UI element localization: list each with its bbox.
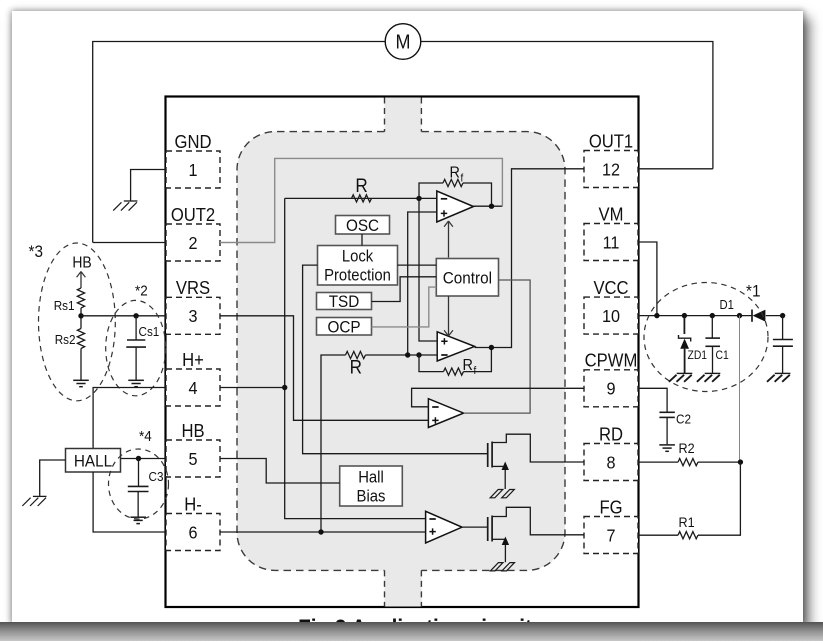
op-amp U3 (second amp) — [437, 332, 474, 361]
dashed ellipse *4 — [109, 449, 169, 519]
wire HALL bottom to H- pin6 — [93, 472, 166, 532]
node dot rail ZD1 — [682, 313, 687, 318]
dashed ellipse *1 — [644, 283, 768, 392]
wire CPWM pin9 to U4 minus — [412, 388, 584, 407]
caption Fig.3 Application circuit — [298, 614, 532, 640]
svg-text:*4: *4 — [139, 428, 152, 445]
internal shaded region fill — [237, 98, 565, 607]
svg-text:f: f — [461, 173, 464, 185]
motor M — [385, 24, 421, 60]
OCP block — [317, 318, 372, 337]
svg-text:8: 8 — [606, 453, 615, 473]
svg-text:M: M — [396, 31, 411, 53]
wire U5 output to Q2 gate — [462, 526, 488, 528]
Control block — [436, 259, 498, 297]
pin 10 VCC — [584, 277, 638, 334]
svg-text:Control: Control — [443, 269, 492, 288]
node dot rail C1 — [710, 313, 715, 318]
svg-text:11: 11 — [603, 233, 620, 253]
dashed ellipse *3 — [39, 243, 116, 401]
zener ZD1 — [679, 316, 708, 373]
node dot rail VM — [654, 313, 659, 318]
pin 11 VM — [584, 203, 638, 260]
svg-text:12: 12 — [602, 160, 620, 180]
svg-text:TSD: TSD — [329, 292, 360, 311]
node dot R2 R1 junction — [738, 459, 743, 464]
svg-text:C2: C2 — [676, 412, 691, 427]
node dot U3 minus b — [416, 352, 421, 357]
svg-text:VCC: VCC — [593, 277, 628, 298]
ground Rs2 — [73, 380, 89, 386]
transistor Q2 (FG driver) — [488, 507, 584, 562]
svg-text:VM: VM — [599, 203, 624, 224]
capacitor Cs1 — [126, 316, 159, 380]
svg-text:RD: RD — [599, 423, 623, 444]
svg-text:*1: *1 — [746, 282, 760, 301]
wire motor loop left — [93, 42, 386, 243]
IC body outline U1 package — [166, 97, 639, 608]
ground C3 — [130, 517, 146, 523]
svg-text:H-: H- — [184, 493, 202, 514]
svg-text:Hall: Hall — [358, 469, 384, 487]
svg-text:HB: HB — [181, 420, 204, 441]
svg-text:R2: R2 — [679, 440, 695, 456]
node dot Rs junction — [78, 313, 83, 318]
svg-text:Rs2: Rs2 — [55, 332, 76, 347]
wire OUT2 gray route pin2 to U2 output — [220, 158, 502, 242]
pin 2 OUT2 — [166, 204, 220, 261]
resistor R (second) — [346, 351, 366, 377]
wire H- rail up to R (second) — [321, 355, 346, 532]
svg-text:R: R — [450, 164, 460, 182]
arrow to HB — [77, 272, 86, 289]
dashed ellipse *2 — [106, 300, 166, 395]
svg-text:R1: R1 — [679, 514, 695, 530]
wire H+ pin4 to rail — [220, 387, 285, 389]
wire H- pin6 to U5 plus — [220, 531, 426, 533]
wire VRS external — [81, 315, 166, 317]
wire U2 output node — [474, 205, 503, 207]
resistor Rs1 — [54, 288, 85, 313]
pin 6 H- — [166, 493, 220, 550]
feedback resistor Rf (top) — [419, 164, 492, 206]
wire HALL to HB pin5 — [121, 458, 167, 460]
wire TSD to Control — [372, 277, 437, 302]
svg-text:*3: *3 — [29, 242, 43, 261]
wire Lock Protection left to MOSFET Q1 gate — [303, 265, 488, 454]
pin 3 VRS — [166, 277, 220, 334]
bottom shadow band — [0, 622, 823, 641]
svg-text:6: 6 — [188, 523, 197, 543]
internal region dashed border — [237, 98, 565, 607]
transistor Q1 (RD driver) — [488, 434, 584, 489]
ground Cs1 — [128, 380, 144, 386]
wire OCP to Control — [372, 287, 437, 327]
node dot H+ junction — [282, 385, 287, 390]
svg-text:3: 3 — [188, 306, 197, 326]
svg-text:HALL: HALL — [74, 452, 112, 471]
wire R input to op-amp U2 minus — [285, 197, 437, 199]
svg-text:HB: HB — [72, 255, 92, 272]
resistor R (top) — [352, 175, 372, 202]
op-amp U5 (hall amp) — [426, 511, 462, 543]
pin 8 RD — [584, 423, 638, 480]
node dot U3 minus a — [405, 352, 410, 357]
wire U3 output to OUT1 pin 12 — [475, 169, 584, 348]
svg-text:OCP: OCP — [327, 318, 360, 337]
TSD block — [317, 292, 372, 311]
node dot H- junction — [318, 529, 323, 534]
ground Q2 source — [490, 563, 514, 571]
svg-text:7: 7 — [606, 526, 615, 546]
pin 1 GND — [166, 131, 220, 188]
wire H+ vertical rail to R and hall amp — [285, 198, 426, 518]
arrow Control to U2 — [444, 221, 453, 258]
svg-text:OUT1: OUT1 — [589, 130, 633, 151]
svg-text:Protection: Protection — [324, 267, 391, 285]
resistor R2 — [639, 440, 741, 465]
pin 4 H+ — [166, 349, 220, 406]
svg-text:CPWM: CPWM — [585, 350, 638, 371]
pin 12 OUT1 — [584, 130, 638, 187]
node dot C3 tap — [136, 456, 141, 461]
svg-text:GND: GND — [175, 131, 212, 152]
ground ZD1 — [669, 373, 692, 381]
svg-text:OUT2: OUT2 — [171, 204, 215, 225]
Hall Bias block — [340, 466, 403, 506]
ground HALL — [22, 496, 46, 506]
capacitor C1 — [705, 316, 728, 373]
wire VRS pin3 to U4 plus — [220, 316, 428, 421]
wire rail to R divider — [739, 316, 741, 463]
svg-text:R: R — [463, 356, 473, 374]
capacitor supply — [773, 316, 793, 373]
svg-text:H+: H+ — [182, 349, 204, 370]
node dot U2 minus input — [416, 196, 421, 201]
svg-text:10: 10 — [602, 306, 620, 326]
wire Rs2 to ground — [80, 349, 82, 380]
ground supply cap — [767, 373, 790, 381]
ground GND pin1 — [113, 201, 137, 211]
svg-text:Lock: Lock — [342, 248, 373, 266]
pin 9 CPWM — [584, 350, 638, 407]
wire HALL to ground — [40, 460, 66, 496]
wire HB pin5 to Hall Bias — [220, 459, 340, 484]
ground C1 — [697, 373, 720, 381]
node dot rail D1 — [737, 313, 742, 318]
svg-text:FG: FG — [599, 496, 622, 517]
wire H+ external to hall — [93, 388, 165, 449]
svg-text:Rs1: Rs1 — [54, 298, 75, 313]
label HB node — [72, 255, 92, 272]
label *2 — [135, 283, 148, 300]
svg-text:1: 1 — [188, 160, 197, 180]
svg-text:9: 9 — [606, 379, 615, 399]
wire OUT1 external — [639, 168, 713, 170]
svg-text:VRS: VRS — [176, 277, 210, 298]
wire U2 plus to U3 minus node — [408, 212, 437, 355]
label *3 — [29, 242, 43, 261]
wire OSC to Lock Protection — [361, 234, 363, 246]
wire Rs junction — [80, 308, 82, 329]
wire U2 minus node to U3 plus — [419, 198, 437, 341]
svg-text:C3: C3 — [149, 469, 164, 484]
diode D1 — [720, 297, 766, 321]
node dot U2 output — [489, 204, 494, 209]
HALL element box — [66, 449, 121, 473]
wire R to U3 minus — [366, 354, 438, 356]
feedback resistor Rf (second) — [419, 348, 491, 377]
svg-text:5: 5 — [188, 449, 197, 469]
svg-text:*2: *2 — [135, 283, 148, 300]
svg-text:4: 4 — [188, 378, 197, 398]
wire CPWM pin9 to C2 — [639, 388, 668, 412]
wire OUT2 external — [93, 242, 166, 244]
svg-text:OSC: OSC — [346, 216, 379, 235]
capacitor C2 — [659, 412, 691, 444]
node dot U3 output — [489, 345, 494, 350]
node dot Cs1 tap — [133, 313, 138, 318]
svg-text:Bias: Bias — [357, 488, 386, 506]
wire GND pin1 — [131, 170, 166, 201]
label *4 — [139, 428, 152, 445]
pin 7 FG — [584, 496, 638, 553]
svg-text:R: R — [350, 357, 362, 378]
capacitor C3 — [128, 459, 164, 517]
svg-text:C1: C1 — [716, 350, 729, 363]
wire motor loop right — [421, 42, 713, 169]
svg-text:Cs1: Cs1 — [139, 324, 160, 339]
wire VM pin11 — [639, 242, 657, 316]
resistor R1 — [639, 462, 741, 539]
ground C2 — [659, 445, 675, 451]
wire Lock Protection right to Control — [398, 264, 437, 266]
wire U4 output to Control — [464, 280, 530, 413]
svg-text:ZD1: ZD1 — [688, 350, 708, 363]
svg-text:R: R — [355, 175, 367, 196]
svg-text:2: 2 — [188, 233, 197, 253]
Lock Protection block — [318, 246, 398, 286]
label *1 — [746, 282, 760, 301]
ground Q1 source — [490, 490, 514, 498]
arrow Control to U3 — [444, 296, 453, 336]
comparator U4 (PWM comparator) — [428, 399, 463, 428]
resistor Rs2 — [55, 329, 85, 349]
pin 5 HB — [166, 420, 220, 477]
VCC supply rail — [639, 315, 783, 317]
svg-text:D1: D1 — [720, 297, 735, 312]
op-amp U2 (top amp) — [437, 191, 474, 222]
node dot rail cap — [780, 313, 785, 318]
OSC block — [336, 216, 390, 236]
svg-text:f: f — [474, 365, 477, 377]
